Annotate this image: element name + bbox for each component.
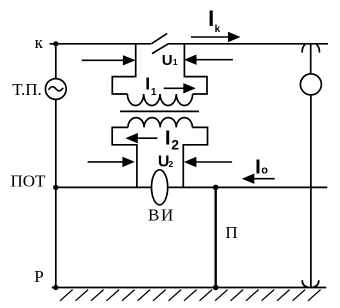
arrow U1 left (82, 59, 125, 61)
wheel contact arc left (302, 280, 308, 287)
svg-text:1: 1 (151, 87, 157, 98)
wire right vertical lower (310, 95, 312, 288)
svg-text:I: I (255, 156, 261, 179)
arrow Ik (191, 36, 229, 38)
svg-text:ПОТ: ПОТ (11, 171, 47, 190)
transformer core line (120, 110, 199, 112)
wire left vertical lower (55, 187, 57, 287)
svg-text:1: 1 (173, 57, 178, 67)
transformer primary winding humps (127, 94, 192, 106)
node POT junction dot (53, 185, 58, 190)
wheel contact arc right (313, 280, 319, 287)
svg-text:Т.П.: Т.П. (12, 80, 41, 99)
svg-text:к: к (35, 33, 44, 52)
arrow Io (254, 178, 275, 180)
svg-text:ВИ: ВИ (148, 206, 175, 225)
svg-text:I: I (145, 74, 150, 94)
arrow U2 right (196, 161, 232, 163)
wire left vertical middle (55, 99, 57, 187)
wire left vertical upper (55, 44, 57, 79)
wire top line right segment (168, 43, 328, 45)
ground hatching (60, 290, 321, 301)
svg-text:П: П (225, 223, 237, 242)
svg-text:k: k (215, 24, 221, 35)
load circle right (300, 74, 321, 95)
wire contact-wire top line left segment (50, 43, 152, 45)
node P-top junction dot (213, 185, 219, 191)
wire P (path) vertical (214, 187, 216, 287)
pantograph arc left (302, 45, 305, 53)
transformer primary bracket right (184, 44, 207, 94)
svg-text:I: I (208, 6, 214, 31)
switch blade upper (151, 33, 167, 43)
wire rail bottom line (52, 287, 326, 289)
wire POT line left (56, 186, 152, 188)
source T.P. tilde (49, 87, 64, 91)
pantograph arc right (316, 45, 319, 53)
arrow I2 (137, 137, 158, 139)
switch blade lower (152, 44, 168, 54)
svg-text:U: U (162, 52, 173, 69)
arrow I1 (164, 87, 185, 89)
svg-text:2: 2 (171, 137, 179, 153)
wire POT line right (168, 186, 328, 188)
arrow U1 right (196, 59, 233, 61)
svg-text:Р: Р (34, 267, 43, 286)
transformer primary bracket (112, 44, 135, 94)
wire right vertical upper (310, 44, 312, 74)
transformer secondary winding humps (128, 118, 192, 128)
svg-text:2: 2 (169, 159, 174, 169)
arrow U2 left (88, 161, 124, 163)
source T.P. circle (45, 79, 66, 100)
svg-text:o: o (261, 165, 268, 177)
svg-text:I: I (165, 127, 171, 150)
node rail junction dot (53, 285, 58, 290)
node P-bottom junction dot (213, 285, 219, 291)
transformer secondary bracket (112, 127, 207, 187)
meter VI ellipse (152, 170, 168, 205)
node K junction dot (53, 41, 58, 46)
